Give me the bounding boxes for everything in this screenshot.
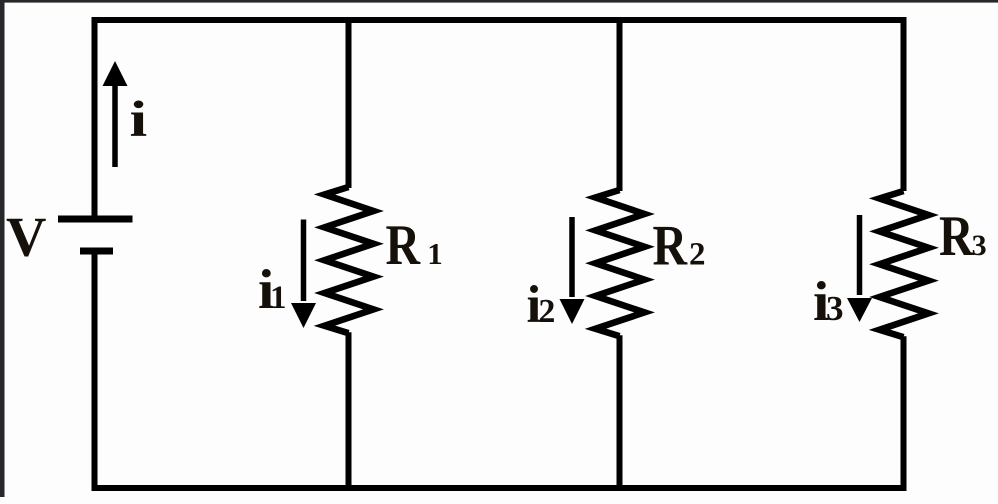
svg-text:R: R (386, 214, 421, 277)
svg-text:R: R (939, 205, 974, 268)
svg-text:i: i (130, 92, 148, 148)
svg-text:3: 3 (972, 229, 987, 262)
svg-text:2: 2 (689, 237, 706, 273)
svg-text:1: 1 (427, 236, 443, 271)
svg-text:3: 3 (826, 289, 844, 328)
svg-text:2: 2 (538, 293, 555, 330)
svg-text:1: 1 (270, 280, 287, 316)
svg-text:R: R (653, 215, 688, 278)
svg-text:V: V (6, 207, 46, 269)
